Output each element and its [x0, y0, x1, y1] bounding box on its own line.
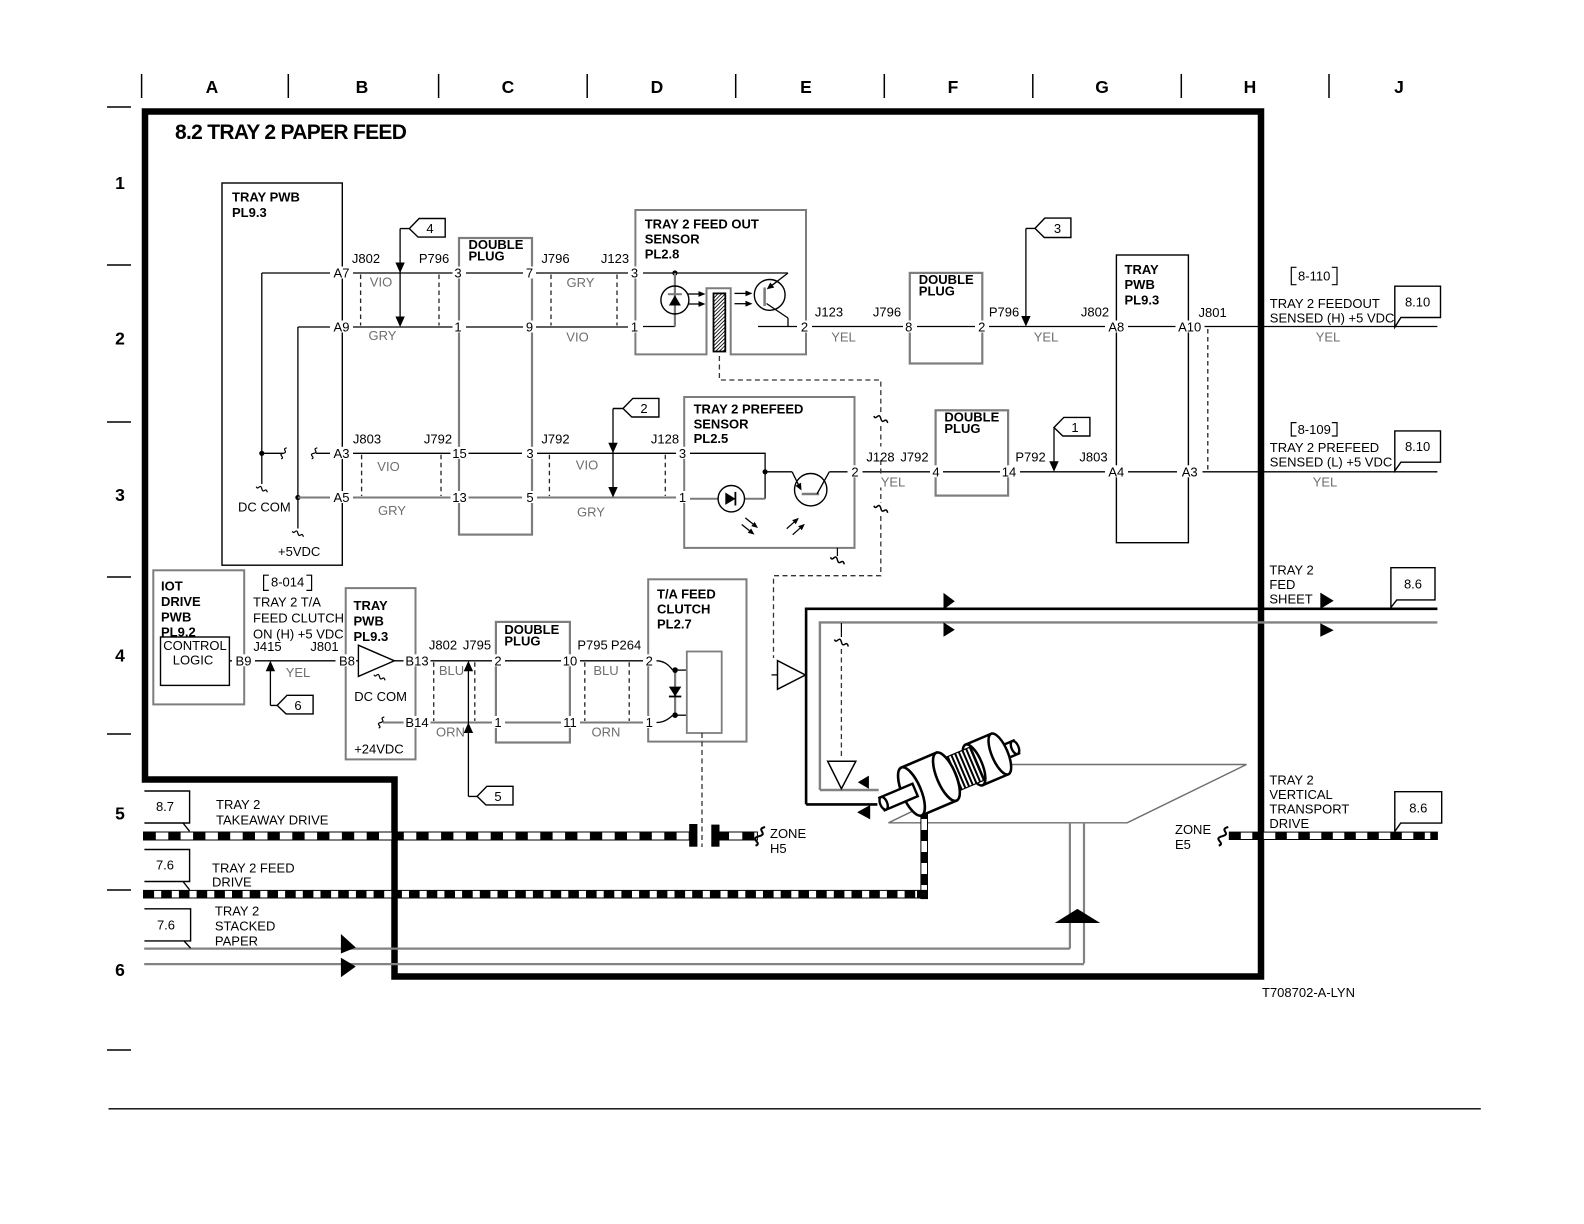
pin 3 — [525, 447, 536, 459]
svg-text:YEL: YEL — [1316, 330, 1341, 345]
pin 3 — [453, 267, 464, 279]
svg-text:J128: J128 — [651, 431, 679, 446]
svg-text:PL2.8: PL2.8 — [645, 247, 680, 262]
svg-text:J792: J792 — [900, 449, 928, 464]
tray pwb B box — [346, 588, 416, 759]
column letters — [206, 77, 1404, 97]
flag box 8.10 second — [1395, 431, 1441, 471]
svg-text:5: 5 — [115, 804, 125, 824]
svg-text:7: 7 — [526, 266, 533, 281]
svg-text:E5: E5 — [1175, 837, 1191, 852]
column tick marks — [142, 74, 1329, 98]
svg-text:13: 13 — [452, 490, 466, 505]
svg-text:J801: J801 — [310, 639, 338, 654]
flag 6 line — [269, 663, 271, 706]
svg-text:1: 1 — [631, 320, 638, 335]
lift arrow — [1055, 909, 1101, 923]
sensor flag bar — [714, 293, 726, 351]
svg-text:J796: J796 — [873, 305, 901, 320]
wire vertical from A9 — [297, 327, 299, 498]
svg-text:ORN: ORN — [436, 725, 465, 740]
pin 3 text — [630, 267, 640, 279]
svg-text:TRANSPORT: TRANSPORT — [1269, 801, 1349, 816]
wires plug3 to clutch — [580, 660, 643, 662]
svg-text:DRIVE: DRIVE — [212, 875, 252, 890]
svg-text:VIO: VIO — [370, 275, 392, 290]
bracket 8-109 — [1291, 423, 1296, 436]
sensor pin 1 wire — [643, 326, 675, 328]
svg-text:B14: B14 — [405, 715, 428, 730]
wire A8-A10 — [1125, 326, 1180, 328]
svg-text:A9: A9 — [334, 320, 350, 335]
wire B13 out — [394, 660, 492, 662]
svg-text:8-014: 8-014 — [271, 575, 304, 590]
feedout sensor flag linkage (dashed) — [719, 356, 880, 413]
node dot — [672, 270, 677, 275]
svg-text:2: 2 — [494, 653, 501, 668]
svg-text:B9: B9 — [236, 653, 252, 668]
svg-text:J802: J802 — [1081, 305, 1109, 320]
connector dash P796 — [438, 275, 440, 326]
svg-text:PLUG: PLUG — [469, 249, 505, 264]
svg-text:+5VDC: +5VDC — [278, 544, 320, 559]
prefeed pin2 wire out — [829, 471, 930, 473]
svg-text:J415: J415 — [253, 639, 281, 654]
flag 5 — [468, 786, 513, 805]
svg-text:H5: H5 — [770, 841, 787, 856]
flag 4 arrow line — [399, 229, 401, 325]
prefeed pin1 wire + LED — [690, 498, 718, 500]
svg-text:TRAY 2 PREFEED: TRAY 2 PREFEED — [1270, 440, 1379, 455]
svg-text:5: 5 — [494, 789, 501, 804]
wire to A4 — [1020, 471, 1106, 473]
svg-text:A: A — [206, 77, 219, 97]
connector dash J802 — [433, 662, 435, 721]
photo arrows into Q2 — [787, 522, 794, 529]
wire A4-A3 — [1125, 471, 1180, 473]
svg-text:8.6: 8.6 — [1404, 577, 1422, 592]
driver amp U1 — [356, 660, 358, 662]
svg-text:TRAY: TRAY — [354, 598, 389, 613]
svg-text:J802: J802 — [352, 251, 380, 266]
svg-text:SENSED (H) +5 VDC: SENSED (H) +5 VDC — [1270, 310, 1395, 325]
svg-text:YEL: YEL — [286, 665, 311, 680]
wire plug to sensor bottom — [536, 326, 628, 328]
flag 3 — [1026, 218, 1071, 237]
svg-text:J802: J802 — [429, 638, 457, 653]
stack arrows — [341, 934, 356, 954]
svg-text:YEL: YEL — [1313, 475, 1338, 490]
pin 5 — [525, 491, 536, 503]
clutch coil — [687, 652, 722, 734]
flag box 8.7 — [144, 791, 189, 831]
svg-text:8.2 TRAY 2 PAPER FEED: 8.2 TRAY 2 PAPER FEED — [175, 121, 407, 144]
svg-text:8: 8 — [905, 320, 912, 335]
left margin dashes — [107, 107, 131, 1050]
svg-text:VERTICAL: VERTICAL — [1269, 787, 1332, 802]
photo arrows — [735, 292, 747, 294]
clutch pin wires — [657, 661, 673, 670]
svg-text:J801: J801 — [1198, 305, 1226, 320]
svg-text:8-109: 8-109 — [1298, 422, 1331, 437]
svg-text:8.7: 8.7 — [156, 799, 174, 814]
wire vertical from A7 — [261, 273, 263, 453]
wire plug to prefeed top — [537, 452, 676, 454]
svg-text:PL9.3: PL9.3 — [232, 205, 267, 220]
svg-text:LOGIC: LOGIC — [173, 653, 213, 668]
flag box 7.6 — [144, 850, 189, 890]
clutch coupling — [689, 824, 697, 847]
wire plug to prefeed bottom — [537, 497, 676, 499]
tray pwb left box — [222, 183, 342, 565]
pin 3 text — [678, 447, 688, 459]
dc com stub + break — [261, 453, 263, 484]
flag 1 — [1054, 417, 1090, 436]
pin A3 — [1177, 465, 1202, 477]
svg-text:14: 14 — [1002, 464, 1016, 479]
svg-text:7.6: 7.6 — [157, 918, 175, 933]
wire A10 out — [1205, 326, 1438, 328]
sensor pin 3 wire — [643, 272, 788, 274]
tray pedestal columns — [1069, 823, 1071, 949]
plug inner wires — [466, 272, 523, 274]
wire A9 — [298, 326, 454, 328]
svg-text:1: 1 — [1071, 420, 1078, 435]
svg-text:DRIVE: DRIVE — [161, 594, 201, 609]
LED emission arrows — [688, 293, 699, 295]
svg-text:4: 4 — [932, 464, 939, 479]
svg-text:A8: A8 — [1108, 320, 1124, 335]
svg-text:B13: B13 — [405, 653, 428, 668]
sheet border (thick) — [145, 112, 1261, 977]
svg-text:A7: A7 — [334, 266, 350, 281]
flag 3 line — [1025, 228, 1027, 324]
nip arrows — [858, 776, 869, 789]
svg-text:TRAY 2: TRAY 2 — [1269, 563, 1313, 578]
LED D2 — [718, 486, 744, 512]
svg-text:TRAY 2: TRAY 2 — [215, 904, 259, 919]
diode D3 — [674, 670, 676, 715]
svg-text:TAKEAWAY DRIVE: TAKEAWAY DRIVE — [216, 812, 329, 827]
svg-text:PWB: PWB — [354, 614, 384, 629]
svg-text:4: 4 — [426, 221, 433, 236]
svg-text:P796: P796 — [419, 251, 449, 266]
fed sheet path (black) — [806, 609, 1437, 805]
svg-text:15: 15 — [452, 446, 466, 461]
svg-text:TRAY 2: TRAY 2 — [1269, 773, 1313, 788]
+24vdc break + wire B14 — [378, 717, 384, 728]
takeaway drive band — [144, 832, 690, 840]
phototransistor Q2 — [795, 474, 827, 506]
svg-text:11: 11 — [563, 715, 577, 730]
LED D1 — [661, 286, 689, 314]
flag 2 — [613, 398, 659, 417]
flag 1 line — [1053, 428, 1055, 470]
LED vertical wire — [674, 273, 676, 327]
vertical transport drive band — [1229, 832, 1437, 839]
pin B8 — [336, 654, 359, 666]
svg-text:SHEET: SHEET — [1269, 592, 1312, 607]
prefeed sensor flag stub + break — [836, 548, 838, 556]
svg-text:C: C — [502, 77, 515, 97]
actuate triangle (right) — [772, 674, 778, 676]
IOT drive pwb box — [153, 570, 244, 704]
svg-text:TRAY 2 FEEDOUT: TRAY 2 FEEDOUT — [1270, 296, 1380, 311]
svg-text:YEL: YEL — [831, 330, 856, 345]
svg-text:DRIVE: DRIVE — [1269, 816, 1309, 831]
svg-text:3: 3 — [631, 266, 638, 281]
svg-text:1: 1 — [679, 490, 686, 505]
zone E5 break — [1218, 827, 1228, 846]
pin 9 — [524, 321, 535, 333]
flag 2 line — [612, 409, 614, 496]
bottom rule — [109, 1108, 1481, 1110]
svg-text:PL2.7: PL2.7 — [657, 617, 692, 632]
flag 6 — [270, 695, 313, 714]
svg-text:J795: J795 — [463, 638, 491, 653]
grey path linkage break + dashed — [840, 623, 842, 637]
svg-text:J128: J128 — [866, 449, 894, 464]
svg-text:J: J — [1394, 77, 1404, 97]
svg-text:TRAY: TRAY — [1125, 262, 1160, 277]
svg-text:TRAY 2 FEED OUT: TRAY 2 FEED OUT — [645, 217, 759, 232]
svg-text:2: 2 — [801, 320, 808, 335]
wire A5 — [298, 497, 454, 499]
svg-text:1: 1 — [454, 320, 461, 335]
svg-text:YEL: YEL — [881, 475, 906, 490]
svg-text:GRY: GRY — [567, 275, 595, 290]
pin A4 — [1105, 465, 1128, 477]
svg-text:TRAY 2 T/A: TRAY 2 T/A — [253, 594, 321, 609]
pin 13 — [451, 491, 469, 503]
svg-text:SENSED (L) +5 VDC: SENSED (L) +5 VDC — [1270, 455, 1392, 470]
sensor pin 2 wire out — [758, 326, 903, 328]
clutch pin 1 — [644, 716, 656, 728]
svg-text:J803: J803 — [353, 431, 381, 446]
svg-text:J796: J796 — [541, 251, 569, 266]
pin 2 — [977, 321, 988, 333]
svg-text:P795: P795 — [577, 638, 607, 653]
svg-text:1: 1 — [494, 715, 501, 730]
actuate triangle (down) — [828, 761, 856, 788]
svg-text:TRAY 2 FEED: TRAY 2 FEED — [212, 860, 295, 875]
node A5 junction dot — [295, 495, 300, 500]
prefeed sensor box — [684, 397, 854, 548]
connector dash J792 — [440, 455, 442, 496]
svg-text:A3: A3 — [334, 446, 350, 461]
connector dash J792 — [548, 455, 550, 496]
svg-text:6: 6 — [294, 698, 301, 713]
connector dash J801 — [1207, 329, 1209, 470]
svg-text:GRY: GRY — [369, 328, 397, 343]
pin 14 — [1000, 465, 1018, 477]
svg-text:A4: A4 — [1108, 464, 1124, 479]
flag box 8.6 second — [1395, 792, 1442, 832]
flag 4 — [400, 219, 445, 238]
bracket 8-110 — [1291, 267, 1296, 284]
svg-text:J803: J803 — [1079, 449, 1107, 464]
svg-text:3: 3 — [115, 485, 125, 505]
sheet flow arrows — [944, 593, 955, 610]
svg-text:J123: J123 — [601, 251, 629, 266]
svg-text:10: 10 — [563, 653, 577, 668]
wire B9 to B8 — [229, 660, 339, 662]
svg-text:IOT: IOT — [161, 579, 183, 594]
svg-text:F: F — [948, 77, 959, 97]
svg-text:CONTROL: CONTROL — [163, 638, 227, 653]
svg-text:STACKED: STACKED — [215, 919, 275, 934]
svg-text:8.10: 8.10 — [1405, 295, 1430, 310]
pin 2 — [493, 654, 504, 666]
svg-text:GRY: GRY — [378, 503, 406, 518]
svg-text:BLU: BLU — [439, 663, 464, 678]
label J128 over dashed — [865, 447, 896, 460]
svg-text:YEL: YEL — [1034, 330, 1059, 345]
pin 1 text — [630, 321, 640, 333]
svg-text:B: B — [356, 77, 369, 97]
svg-text:2: 2 — [640, 401, 647, 416]
pin 8 — [904, 321, 915, 333]
flag box 8.6 — [1391, 568, 1435, 608]
+5vdc stub + break — [297, 498, 299, 529]
svg-text:2: 2 — [978, 320, 985, 335]
svg-text:FED: FED — [1269, 577, 1295, 592]
pin 1 text — [678, 491, 688, 503]
svg-text:3: 3 — [454, 266, 461, 281]
double plug 3 — [496, 622, 570, 743]
svg-text:VIO: VIO — [377, 459, 399, 474]
node A3 junction dot — [259, 451, 264, 456]
connector dash J796 — [550, 275, 552, 326]
svg-text:4: 4 — [115, 646, 125, 666]
svg-text:J123: J123 — [815, 305, 843, 320]
phototransistor Q1 — [754, 280, 785, 311]
stacked paper lines — [144, 947, 1070, 949]
svg-text:TRAY PWB: TRAY PWB — [232, 190, 300, 205]
wire A7 — [262, 272, 454, 274]
pin A10 — [1176, 321, 1205, 333]
pin A9 — [330, 321, 353, 333]
svg-text:SENSOR: SENSOR — [694, 417, 750, 432]
svg-text:P792: P792 — [1015, 449, 1045, 464]
svg-text:ORN: ORN — [592, 725, 621, 740]
svg-text:8-110: 8-110 — [1298, 269, 1330, 284]
pin 11 — [561, 716, 579, 728]
svg-text:PL2.5: PL2.5 — [694, 431, 729, 446]
svg-text:3: 3 — [1054, 221, 1061, 236]
svg-text:+24VDC: +24VDC — [354, 742, 404, 757]
connector dash P264 — [628, 662, 630, 721]
svg-text:VIO: VIO — [566, 330, 588, 345]
wire to A8 — [989, 326, 1106, 328]
svg-text:E: E — [800, 77, 812, 97]
svg-text:T708702-A-LYN: T708702-A-LYN — [1262, 985, 1355, 1000]
connector dash J803 — [361, 455, 363, 496]
svg-text:G: G — [1095, 77, 1109, 97]
svg-text:DC COM: DC COM — [238, 500, 291, 515]
pin 4 — [931, 465, 942, 477]
svg-text:T/A FEED: T/A FEED — [657, 587, 716, 602]
connector dash J802 — [360, 275, 362, 326]
feed drive band — [144, 890, 928, 898]
connector dash J123 — [616, 275, 618, 326]
prefeed pin3 wire — [690, 453, 765, 498]
svg-text:D: D — [651, 77, 664, 97]
svg-text:P796: P796 — [989, 305, 1019, 320]
svg-text:8.6: 8.6 — [1409, 801, 1427, 816]
connector dash P795 — [584, 662, 586, 721]
svg-text:2: 2 — [851, 464, 858, 479]
connector dash J795 — [474, 662, 476, 721]
svg-text:DC COM: DC COM — [354, 689, 407, 704]
feed out sensor box — [635, 210, 806, 354]
svg-text:A5: A5 — [334, 490, 350, 505]
plug inner wires row3 — [467, 452, 522, 454]
pin 10 — [561, 654, 579, 666]
svg-text:BLU: BLU — [593, 663, 618, 678]
svg-text:1: 1 — [646, 715, 653, 730]
svg-text:2: 2 — [115, 329, 125, 349]
bracket 8-014 — [264, 575, 269, 590]
prefeed node dot — [763, 469, 768, 474]
wire A3 out — [1203, 471, 1438, 473]
svg-text:PLUG: PLUG — [919, 284, 955, 299]
svg-text:PAPER: PAPER — [215, 934, 258, 949]
fed sheet path (grey) — [820, 622, 1438, 790]
svg-text:TRAY 2: TRAY 2 — [216, 797, 260, 812]
wire plug to sensor top — [536, 272, 628, 274]
flag 5 line — [467, 663, 469, 797]
vertical zipper from roller — [921, 805, 928, 898]
svg-text:P264: P264 — [611, 638, 641, 653]
control logic box — [161, 637, 230, 685]
double plug 2 — [910, 273, 983, 364]
pin 1 — [453, 321, 464, 333]
pin 15 — [451, 447, 469, 459]
pin A8 — [1105, 321, 1128, 333]
flag box 7.6 second — [144, 909, 190, 948]
connector dash J128 — [664, 455, 666, 496]
svg-text:ZONE: ZONE — [1175, 822, 1211, 837]
flag box 8.10 — [1395, 286, 1441, 327]
svg-text:ZONE: ZONE — [770, 826, 806, 841]
svg-text:8.10: 8.10 — [1405, 439, 1430, 454]
row digits — [115, 173, 125, 980]
wire A3 with jumper break — [262, 452, 283, 454]
tray pwb right box — [1116, 255, 1188, 543]
double plug 4 — [936, 410, 1009, 495]
svg-text:CLUTCH: CLUTCH — [657, 602, 710, 617]
svg-text:3: 3 — [679, 446, 686, 461]
svg-text:PWB: PWB — [161, 610, 191, 625]
svg-text:3: 3 — [526, 446, 533, 461]
svg-text:PL9.3: PL9.3 — [1125, 293, 1160, 308]
pin 7 — [524, 267, 535, 279]
svg-text:6: 6 — [115, 960, 125, 980]
clutch pin 2 — [644, 654, 656, 666]
svg-text:PLUG: PLUG — [504, 634, 540, 649]
svg-text:PL9.3: PL9.3 — [354, 629, 389, 644]
svg-text:J792: J792 — [541, 431, 569, 446]
pin 1 — [493, 716, 504, 728]
svg-text:J792: J792 — [424, 431, 452, 446]
svg-text:A3: A3 — [1182, 464, 1198, 479]
svg-text:FEED CLUTCH: FEED CLUTCH — [253, 610, 344, 625]
svg-text:1: 1 — [115, 173, 125, 193]
svg-text:9: 9 — [526, 320, 533, 335]
svg-text:TRAY 2 PREFEED: TRAY 2 PREFEED — [694, 402, 804, 417]
svg-text:PLUG: PLUG — [944, 421, 980, 436]
